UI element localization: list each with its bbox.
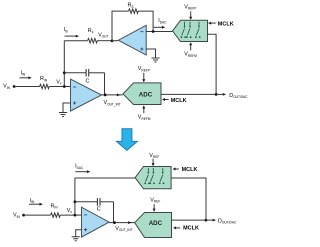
svg-text:MCLK: MCLK — [171, 98, 187, 104]
svg-text:C: C — [97, 207, 101, 213]
label I_fb current arrow — [64, 27, 68, 33]
junction dot U3 out — [113, 221, 116, 224]
wire ADC out (bottom) — [172, 219, 207, 221]
svg-text:ADC: ADC — [149, 220, 163, 227]
arrowhead into ADC (bottom) — [128, 221, 132, 224]
svg-text:ADC: ADC — [139, 91, 153, 98]
node VIN (top) — [3, 84, 10, 90]
label R_IN (bottom) — [51, 203, 59, 209]
junction dot DOUT (top) — [215, 93, 218, 96]
label V_OUT — [98, 32, 108, 38]
label V_OUT_INT (bottom) — [115, 226, 132, 232]
node V_OUT dot — [111, 39, 114, 42]
capacitor C (top) — [64, 72, 86, 74]
label I_DAC (bottom) — [75, 164, 84, 170]
junction dot DOUT (bottom) — [205, 219, 208, 222]
op-amp U2 (top right, points left) — [118, 25, 146, 55]
label I_DAC current arrow (top) — [158, 18, 167, 24]
svg-text:MCLK: MCLK — [218, 21, 234, 27]
ground (U1 +) — [63, 103, 71, 112]
switch 1 (top DAC) — [181, 22, 187, 38]
label V_REFP (top ADC) — [138, 66, 150, 72]
label V_OUT_INT (top) — [104, 100, 121, 106]
junction dot minus node — [152, 30, 155, 33]
ADC block (top) — [123, 83, 161, 105]
svg-text:MCLK: MCLK — [183, 225, 199, 231]
switch 3 (top DAC) — [195, 22, 201, 38]
switch 2 (bottom DAC) — [149, 168, 155, 184]
label I_IN current arrow (top) — [21, 70, 26, 76]
label V_REFM (top ADC) — [138, 115, 151, 121]
wire VIN to RIN — [14, 86, 39, 88]
label V_x (bottom) — [67, 208, 73, 214]
svg-text:MCLK: MCLK — [182, 167, 198, 173]
wire U2 minus input to DAC — [146, 31, 172, 33]
junction dot cap branch — [63, 71, 66, 74]
label R_F — [88, 28, 94, 34]
label D_OUT/DAC (top) — [229, 93, 248, 99]
arrow DOUT (bottom) — [206, 219, 213, 221]
wire Vx vertical — [63, 41, 65, 87]
resistor RF — [88, 39, 98, 43]
wire U3 output (bottom) — [109, 222, 135, 224]
arrow DOUT (top) — [216, 93, 223, 95]
wire RIN to op-amp — [49, 86, 70, 88]
switch 2 (top DAC) — [186, 22, 192, 38]
label D_OUT/DAC (bottom) — [218, 218, 237, 224]
wire Rs loop — [112, 11, 129, 41]
label R_IN (top) — [40, 76, 48, 82]
junction dots (bottom Vx) — [74, 214, 77, 217]
capacitor C (bottom) — [75, 201, 98, 203]
arrowhead into ADC — [117, 94, 121, 97]
op-amp U3 integrator (bottom) — [82, 207, 110, 237]
wire DAC out down — [208, 34, 217, 94]
label MCLK (bottom ADC) — [183, 225, 199, 231]
wire DAC out down (bottom) — [171, 178, 206, 220]
node VIN (bottom) — [13, 213, 20, 219]
label MCLK (top DAC) — [218, 21, 234, 27]
resistor RS — [129, 9, 139, 13]
resistor RIN (top) — [40, 84, 50, 88]
switch 3 (bottom DAC) — [159, 168, 165, 184]
label I_IN (bottom) — [30, 198, 35, 204]
wire ADC out to junction — [161, 93, 216, 95]
resistor RIN (bottom) — [51, 213, 61, 217]
junction dot Vx — [63, 85, 66, 88]
label R_S — [128, 3, 134, 9]
label C (bottom) — [97, 207, 101, 213]
wire U1 output — [102, 94, 123, 96]
label V_REF (bottom DAC) — [149, 153, 159, 159]
label MCLK (bottom DAC) — [182, 167, 198, 173]
wire Vx vertical (bottom) — [74, 178, 76, 215]
wire IDAC top (bottom circuit) — [75, 177, 135, 179]
wire cap to output — [104, 73, 106, 95]
svg-text:C: C — [86, 79, 90, 85]
wire U2 output to node — [112, 40, 118, 42]
ground (U2 +) — [146, 49, 155, 58]
ground (U3 +) — [76, 230, 82, 237]
junction dot U1 output — [104, 94, 107, 97]
ADC block (bottom) — [135, 213, 172, 238]
op-amp U1 integrator (top) — [71, 79, 102, 111]
wire VIN to RIN (bottom) — [24, 214, 51, 216]
label V_REF (bottom ADC) — [150, 197, 160, 203]
label V_x node (top) — [56, 79, 62, 85]
input terminal dot (bottom) — [22, 214, 25, 217]
input terminal dot — [13, 85, 16, 88]
feedback wire with RF — [64, 40, 87, 42]
label C (top) — [86, 79, 90, 85]
label V_REFM (top DAC) — [184, 52, 197, 58]
wire cap to output (bottom) — [113, 202, 115, 223]
switch 1 (bottom DAC) — [144, 168, 150, 184]
DAC block (bottom) — [135, 167, 171, 189]
label MCLK (top ADC) — [171, 98, 187, 104]
label V_REFP (top DAC) — [184, 4, 196, 10]
DAC block (top) — [173, 20, 208, 41]
